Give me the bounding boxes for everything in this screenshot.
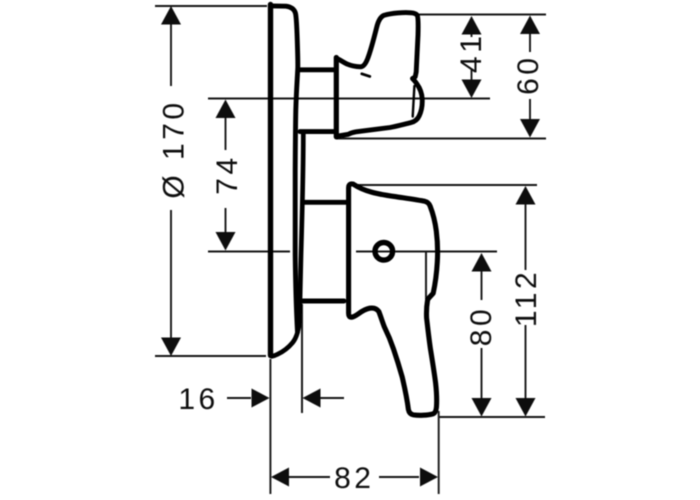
- wire extension line 60 bottom: [336, 138, 546, 140]
- arrowhead dim 80 up: [472, 253, 492, 272]
- wire dim line 82: [288, 476, 419, 478]
- wire extension line plate top: [155, 5, 267, 7]
- arrowhead dim 41 down: [462, 80, 482, 99]
- wire dim line 74: [225, 116, 227, 235]
- knob sleeve top: [300, 67, 336, 72]
- arrowhead dim 112 up: [516, 186, 536, 205]
- knob outline: [337, 13, 422, 137]
- wire extension line 112 top: [355, 184, 537, 186]
- wire centerline knob axis: [208, 98, 490, 100]
- wire dim line 80: [481, 270, 483, 399]
- wire vertical extension 16 right: [301, 304, 303, 413]
- knob grip tick: [362, 74, 370, 77]
- arrowhead dim D170 down: [161, 338, 181, 357]
- wire dim line 112: [525, 203, 527, 399]
- arrowhead dim 74 down: [216, 232, 236, 251]
- svg-text:74: 74: [211, 154, 244, 194]
- escutcheon plate back face: [268, 5, 273, 356]
- svg-text:82: 82: [334, 462, 374, 495]
- arrowhead dim 82 left: [271, 468, 289, 487]
- lever handle outline: [349, 184, 438, 415]
- svg-text:80: 80: [465, 306, 498, 346]
- svg-text:16: 16: [178, 383, 218, 416]
- arrowhead dim 16 right: [252, 389, 270, 408]
- knob flange back edge: [334, 58, 339, 137]
- arrowhead dim 60 down: [520, 119, 540, 138]
- wire dim line 16: [227, 397, 344, 399]
- wire extension line lever bottom: [439, 416, 545, 418]
- lever sleeve top: [303, 200, 346, 205]
- knob front cap inner edge: [413, 86, 415, 117]
- arrowhead dim 16 left: [303, 389, 321, 408]
- wire centerline lever axis left: [208, 251, 290, 253]
- wire centerline lever axis right: [356, 251, 497, 253]
- wire dim line 60: [529, 32, 531, 120]
- wire extension line knob top: [419, 14, 546, 16]
- wire vertical extension 82 left: [269, 359, 271, 494]
- arrowhead dim 80 down: [472, 398, 492, 417]
- arrowhead dim 112 down: [516, 398, 536, 417]
- svg-text:112: 112: [510, 269, 543, 327]
- arrowhead dim 60 up: [520, 16, 540, 35]
- wire dim line 41: [471, 33, 473, 81]
- lever sleeve bottom: [303, 299, 344, 304]
- arrowhead dim 41 up: [462, 16, 482, 35]
- lever screw hole: [375, 243, 393, 261]
- arrowhead dim 82 right: [420, 468, 438, 487]
- arrowhead dim 74 up: [216, 100, 236, 119]
- knob sleeve bottom: [300, 129, 336, 134]
- wire extension line plate bottom: [155, 355, 266, 357]
- svg-text:41: 41: [455, 33, 488, 73]
- wire lever notch extension: [425, 252, 427, 300]
- svg-text:60: 60: [512, 55, 545, 95]
- wire dim line D170: [170, 8, 172, 354]
- arrowhead dim D170 up: [161, 6, 181, 25]
- svg-text:Ø 170: Ø 170: [158, 99, 191, 198]
- escutcheon plate rim edge: [272, 134, 304, 356]
- escutcheon plate face profile: [271, 6, 298, 332]
- wire vertical extension 82 right: [438, 411, 440, 494]
